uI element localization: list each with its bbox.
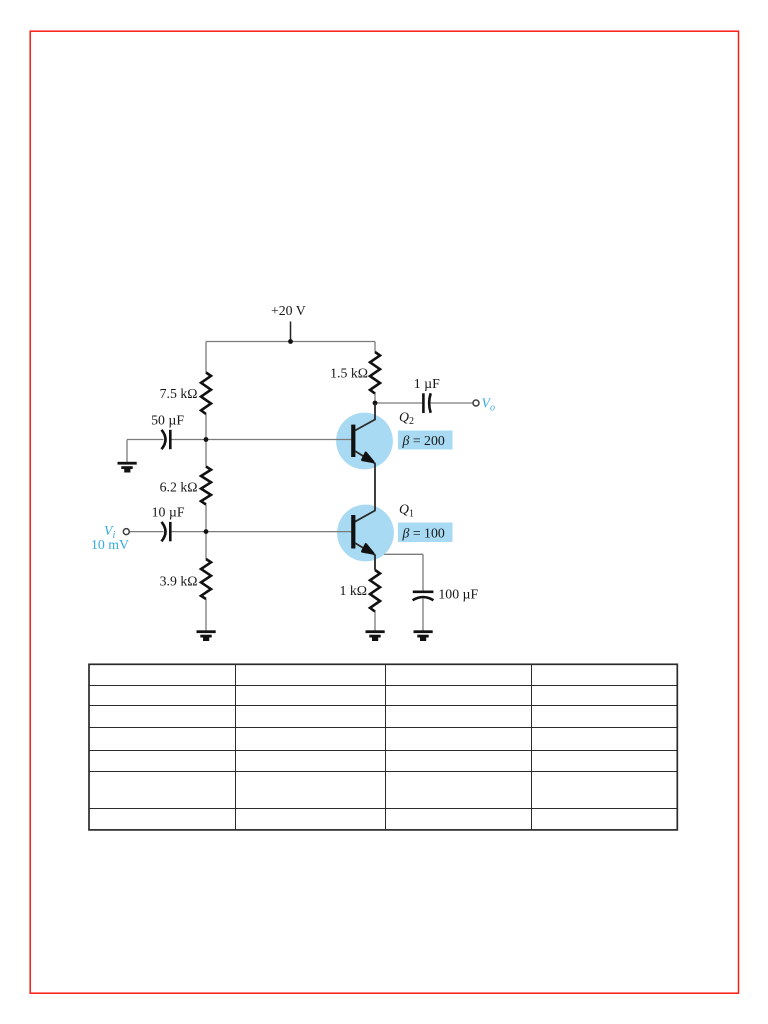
svg-text:10 µF: 10 µF [152, 505, 185, 520]
svg-text:1.5 kΩ: 1.5 kΩ [330, 366, 368, 381]
svg-text:β = 100: β = 100 [402, 526, 445, 541]
svg-text:1 kΩ: 1 kΩ [340, 583, 368, 598]
svg-text:3.9 kΩ: 3.9 kΩ [160, 574, 198, 589]
svg-text:Vo: Vo [482, 396, 495, 414]
svg-text:50 µF: 50 µF [151, 413, 184, 428]
svg-text:1 µF: 1 µF [414, 376, 440, 391]
svg-text:+20 V: +20 V [271, 303, 306, 318]
svg-text:7.5 kΩ: 7.5 kΩ [160, 386, 198, 401]
svg-text:6.2 kΩ: 6.2 kΩ [160, 480, 198, 495]
svg-text:β = 200: β = 200 [402, 433, 445, 448]
svg-text:10 mV: 10 mV [91, 537, 129, 552]
svg-text:100 µF: 100 µF [438, 587, 478, 602]
svg-text:Q2: Q2 [399, 409, 414, 427]
svg-text:Q1: Q1 [399, 502, 414, 520]
